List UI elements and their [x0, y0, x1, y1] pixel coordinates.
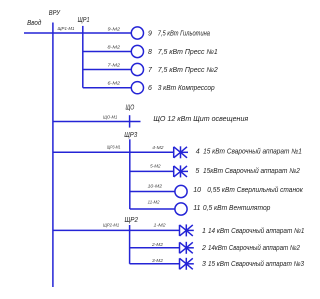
- svg-text:7: 7: [148, 67, 153, 74]
- wire: branch 2: [130, 247, 180, 249]
- bus ВРУ: [52, 23, 54, 288]
- bus ЩР3: [129, 139, 131, 209]
- svg-text:6: 6: [148, 85, 152, 92]
- wire: branch 6: [83, 87, 132, 89]
- wire: branch 8: [83, 51, 132, 53]
- svg-text:3: 3: [202, 261, 206, 268]
- svg-text:2-М2: 2-М2: [151, 242, 163, 248]
- wire: ЩР3 feeder / branch 4: [53, 151, 174, 153]
- plug connector symbol branch 1: [180, 224, 194, 236]
- motor circle 10: [175, 185, 187, 197]
- svg-text:7,5 кВт Пресс №2: 7,5 кВт Пресс №2: [158, 67, 218, 74]
- plug connector symbol branch 4: [174, 146, 188, 158]
- svg-text:10-М2: 10-М2: [148, 183, 163, 189]
- svg-text:0,55 кВт Сверлильный станок: 0,55 кВт Сверлильный станок: [207, 186, 303, 194]
- svg-text:7,5 кВт Гильотина: 7,5 кВт Гильотина: [158, 30, 210, 37]
- svg-text:ЩО: ЩО: [126, 104, 135, 111]
- svg-text:5: 5: [195, 168, 199, 175]
- svg-text:5-М2: 5-М2: [150, 164, 161, 170]
- plug connector symbol branch 2: [180, 242, 194, 254]
- svg-text:Ввод: Ввод: [27, 19, 41, 27]
- svg-text:ЩО 12 кВт Щит освещения: ЩО 12 кВт Щит освещения: [153, 116, 248, 123]
- svg-text:6-М2: 6-М2: [108, 81, 121, 87]
- svg-text:15 кВт Сварочный аппарат №3: 15 кВт Сварочный аппарат №3: [208, 260, 304, 268]
- svg-text:15 кВт Сварочный аппарат №1: 15 кВт Сварочный аппарат №1: [203, 148, 302, 156]
- wire: branch 10: [130, 191, 175, 193]
- motor circle 7: [131, 63, 143, 75]
- motor circle 8: [131, 45, 143, 57]
- svg-text:7-М2: 7-М2: [108, 62, 121, 68]
- wire: branch 11: [130, 208, 175, 210]
- svg-text:ВРУ: ВРУ: [49, 10, 61, 17]
- svg-text:7,5 кВт Пресс №1: 7,5 кВт Пресс №1: [158, 49, 218, 56]
- svg-text:8-М2: 8-М2: [108, 44, 121, 50]
- wire: branch 7: [83, 69, 132, 71]
- svg-text:0,5 кВт Вентилятор: 0,5 кВт Вентилятор: [203, 205, 271, 212]
- motor circle 11: [175, 203, 187, 215]
- svg-text:9-М2: 9-М2: [108, 27, 121, 33]
- svg-text:11-М2: 11-М2: [148, 200, 160, 206]
- wire: branch 5: [130, 170, 174, 172]
- svg-text:3 кВт Компрессор: 3 кВт Компрессор: [158, 85, 215, 92]
- wire: Ввод main feeder to motor 9: [24, 32, 131, 34]
- svg-text:14кВт Сварочный аппарат №2: 14кВт Сварочный аппарат №2: [208, 244, 300, 252]
- wire: branch 3: [130, 263, 180, 265]
- motor circle 6: [131, 82, 143, 94]
- svg-text:ЩР3: ЩР3: [124, 132, 137, 139]
- svg-text:4-М2: 4-М2: [152, 145, 164, 151]
- svg-text:4: 4: [196, 149, 200, 156]
- svg-text:ЩР2: ЩР2: [125, 217, 139, 224]
- svg-text:9: 9: [148, 30, 152, 37]
- plug connector symbol branch 5: [174, 165, 188, 177]
- svg-text:3-М2: 3-М2: [152, 258, 163, 264]
- bus ЩР1: [82, 26, 84, 88]
- wire: ЩО feeder: [53, 121, 141, 123]
- plug connector symbol branch 3: [180, 258, 194, 270]
- svg-text:14 кВт Сварочный аппарат №1: 14 кВт Сварочный аппарат №1: [208, 227, 304, 235]
- svg-text:ЩР1-М1: ЩР1-М1: [58, 26, 75, 32]
- svg-text:ЩР3-М1: ЩР3-М1: [107, 145, 121, 151]
- motor circle 9: [131, 27, 143, 39]
- svg-text:ЩР1: ЩР1: [78, 17, 90, 24]
- svg-text:2: 2: [201, 245, 206, 252]
- wire: ЩР2 feeder / branch 1: [53, 229, 180, 231]
- bus ЩР2: [129, 225, 131, 264]
- svg-text:ЩР2-М1: ЩР2-М1: [103, 222, 119, 228]
- svg-text:10: 10: [193, 187, 201, 194]
- svg-text:8: 8: [148, 49, 152, 56]
- svg-text:11: 11: [193, 205, 200, 212]
- svg-text:1: 1: [202, 228, 206, 235]
- svg-text:ЩО-М1: ЩО-М1: [103, 115, 118, 121]
- panel tick ЩО: [129, 115, 131, 127]
- svg-text:1-М2: 1-М2: [154, 222, 166, 228]
- svg-text:15кВт Сварочный аппарат №2: 15кВт Сварочный аппарат №2: [203, 167, 300, 175]
